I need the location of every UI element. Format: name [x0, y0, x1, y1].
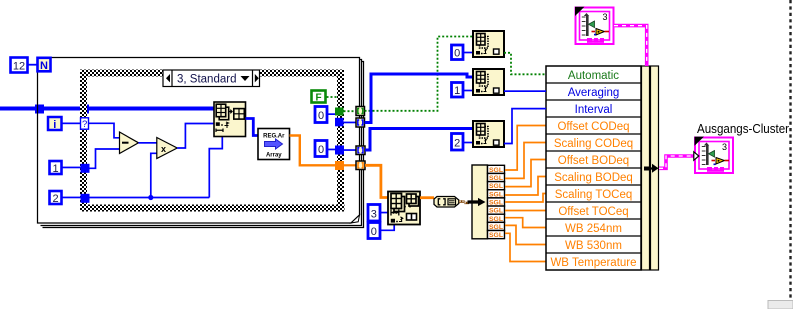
constant 3 [368, 205, 380, 222]
svg-text:WB 254nm: WB 254nm [565, 223, 622, 235]
for loop N (stacked back sheets) [41, 60, 364, 228]
wire: 1 into loop tunnel [62, 167, 81, 169]
loop tunnel green [] [356, 107, 365, 116]
wire: subtract output to multiply [139, 142, 157, 144]
constant 12 [11, 58, 28, 73]
wire: SGL2 to Scaling CODeq [505, 143, 546, 179]
wire: SGL array out of loop to big index icon [365, 165, 388, 197]
wire: orange tunnel link [344, 164, 356, 166]
wire: cluster (pink dashed) from local variable into bundle strip [614, 26, 647, 66]
svg-text:i: i [53, 119, 56, 131]
wire: SGL6 to Offset TOCeq [505, 210, 546, 212]
svg-text:Averaging: Averaging [568, 87, 620, 99]
svg-text:?: ? [82, 119, 87, 130]
wire: i to case selector [62, 123, 81, 125]
wire: SGL5 to Scaling TOCeq [505, 194, 546, 203]
tunnel for 2 on case border [81, 194, 90, 203]
svg-text:Array: Array [266, 153, 282, 159]
big index array icon [388, 192, 420, 225]
wire: boolean array to index icon 0 (dotted green) [365, 37, 474, 111]
iteration terminal i [48, 117, 62, 131]
REG.Ar Array subVI [258, 129, 290, 160]
wire: 0 to index icon 0 [464, 52, 474, 54]
constant 2 [50, 191, 62, 205]
svg-text:Ausgangs-Cluster: Ausgangs-Cluster [697, 122, 789, 136]
multiply function [157, 138, 177, 159]
wire: main 2D-array input wire from left edge [0, 107, 214, 111]
wire: index icon 2 output to Interval [504, 109, 546, 144]
bundle output arrow [644, 164, 659, 173]
wire: cluster wire (brown dotted) to unbundle [459, 200, 469, 204]
unbundle (cluster to SGL elements) node [468, 165, 488, 239]
svg-text:Scaling BODeq: Scaling BODeq [554, 172, 633, 184]
wire: REG output (orange) to case tunnel [290, 136, 336, 166]
wire: blue tunnel link 2 [344, 149, 356, 151]
array to cluster conversion node [434, 197, 459, 208]
svg-text:Offset TOCeq: Offset TOCeq [558, 206, 628, 218]
tunnel for 1 on case border [81, 164, 90, 173]
wire: replace array subset output to REG subVI [246, 119, 259, 136]
svg-text:SGL: SGL [489, 167, 503, 174]
index array icon 0 [473, 31, 504, 57]
svg-text:0: 0 [318, 110, 324, 122]
page break dotted line [789, 0, 791, 300]
loop tunnel orange [] [356, 161, 365, 170]
bundle-by-name node [546, 66, 659, 270]
wire: int array to index icon 1 [365, 74, 474, 123]
constant 1 [50, 161, 62, 175]
svg-text:SGL: SGL [489, 191, 503, 198]
wire: 2 into loop tunnel [62, 197, 81, 199]
svg-text:Offset BODeq: Offset BODeq [558, 155, 629, 167]
constant 0 (selector for index icon 0) [452, 45, 464, 60]
wire: SGL9 to WB Temperature [505, 233, 546, 261]
case tunnel orange [335, 161, 344, 170]
constant 0 (below 3) [368, 223, 380, 239]
svg-text:SGL: SGL [489, 208, 503, 215]
case tunnel blue 1 [335, 118, 344, 127]
wire: 0 to big index icon bottom [380, 225, 394, 231]
Ausgangs-Cluster indicator [694, 137, 733, 173]
loop tunnel blue 1 [] [356, 118, 365, 127]
wire: tunnel 1 to subtract bottom input [90, 149, 120, 168]
constant 1 (selector for index icon 1) [452, 83, 464, 98]
svg-text:2: 2 [454, 138, 460, 150]
wire: SGL1 to Offset CODeq [505, 126, 546, 171]
label Ausgangs-Cluster [697, 122, 789, 136]
wire: index icon 0 output to Automatic (dotted green) [504, 53, 546, 75]
svg-text:SGL: SGL [489, 199, 503, 206]
svg-text:3: 3 [722, 142, 727, 152]
svg-text:SGL: SGL [489, 216, 503, 223]
index array icon 2 [473, 121, 504, 147]
constant 0 (first) [315, 107, 327, 123]
wire: int array to index icon 2 [365, 129, 473, 151]
svg-text:F: F [315, 93, 321, 104]
svg-text:3, Standard: 3, Standard [177, 74, 236, 86]
wire: SGL7 to WB 254nm [505, 218, 546, 228]
svg-text:REG.Ar: REG.Ar [263, 134, 285, 140]
wire: 0 to case tunnel [327, 113, 335, 115]
constant 2 (selector for index icon 2) [452, 134, 464, 151]
svg-text:3: 3 [602, 12, 607, 22]
svg-text:SGL: SGL [489, 183, 503, 190]
replace array subset icon [214, 102, 246, 137]
svg-text:WB Temperature: WB Temperature [550, 257, 636, 269]
SGL element terminals [488, 165, 505, 239]
boolean constant F [312, 91, 326, 104]
loop count terminal N [38, 58, 51, 72]
svg-text:SGL: SGL [489, 175, 503, 182]
svg-text:3: 3 [371, 209, 377, 221]
svg-text:N: N [40, 60, 48, 72]
wire: SGL8 to WB 530nm [505, 225, 546, 244]
wire: 12 to N [28, 64, 37, 66]
subtract function [120, 132, 139, 154]
wire: multiply output to replace array subset index input [177, 124, 214, 149]
svg-text:1: 1 [52, 163, 58, 175]
svg-text:Scaling CODeq: Scaling CODeq [554, 138, 633, 150]
cluster local variable icon (top) [575, 7, 614, 44]
wire: SGL3 to Offset BODeq [505, 160, 546, 187]
wire: selector value into subtract (top input) [89, 123, 120, 138]
tunnel: main wire through case border [80, 105, 89, 114]
wire: SGL4 to Scaling BODeq [505, 177, 546, 196]
wire: index icon 1 output to Averaging [504, 90, 546, 92]
svg-text:0: 0 [454, 48, 460, 60]
svg-text:0: 0 [371, 226, 377, 238]
wire: blue tunnel link 1 [344, 122, 357, 124]
constant 0 (second) [315, 141, 327, 157]
wire: bundle output (pink dashed) to Ausgangs-Cluster [659, 156, 694, 168]
wire: second 0 to case tunnel [327, 149, 335, 151]
wire: F to case tunnel (dotted green) [327, 96, 338, 98]
wire: 2 to index icon 2 [464, 142, 474, 144]
case selector terminal ? [81, 118, 89, 130]
case tunnel green (boolean out) [335, 108, 344, 116]
case selector label "3, Standard" [163, 70, 260, 87]
svg-text:SGL: SGL [489, 224, 503, 231]
svg-text:WB 530nm: WB 530nm [565, 240, 622, 252]
wire: 1 to index icon 1 [464, 90, 474, 92]
wire: 3 to big index icon [380, 212, 388, 214]
svg-text:Interval: Interval [575, 104, 613, 116]
for loop frame (front sheet with folded corner) [38, 58, 360, 224]
scrollbar corner [768, 301, 793, 309]
svg-text:12: 12 [13, 61, 25, 73]
wire: green tunnel link [344, 110, 357, 112]
case structure border (checkered) [80, 70, 345, 212]
svg-text:Automatic: Automatic [568, 70, 619, 82]
svg-text:x: x [161, 144, 166, 154]
svg-text:1: 1 [454, 85, 460, 97]
loop tunnel blue 2 [] [356, 146, 365, 155]
svg-text:Offset CODeq: Offset CODeq [557, 121, 629, 133]
wire: 2 runs along bottom, branches to multiply and replace-icon length input [90, 137, 223, 201]
svg-text:0: 0 [318, 144, 324, 156]
wire: big index icon output (SGL array) to array-to-cluster [420, 196, 434, 199]
svg-text:SGL: SGL [489, 232, 503, 239]
case tunnel blue 2 [335, 146, 344, 155]
index array icon 1 [473, 69, 504, 95]
svg-text:2: 2 [52, 193, 58, 205]
svg-text:Scaling TOCeq: Scaling TOCeq [555, 189, 633, 201]
tunnel: main wire through for-loop border [35, 105, 44, 114]
